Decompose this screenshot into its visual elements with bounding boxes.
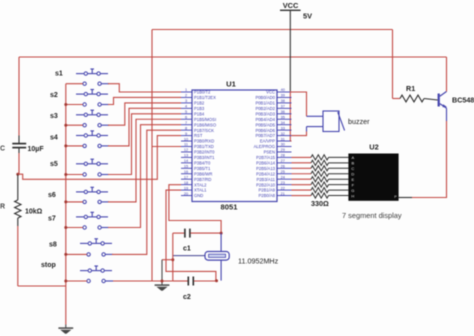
svg-text:s5: s5 xyxy=(50,161,58,168)
svg-text:P2B2/A10: P2B2/A10 xyxy=(256,182,276,187)
svg-text:P0B5/AD5: P0B5/AD5 xyxy=(255,122,275,127)
junction RC node xyxy=(16,173,19,176)
power VCC symbol xyxy=(280,1,301,141)
switch s6 xyxy=(48,187,109,203)
svg-text:s2: s2 xyxy=(50,92,58,99)
junction bus s2 xyxy=(64,103,67,106)
svg-text:P3B6/WR: P3B6/WR xyxy=(194,171,212,176)
pin 33 P0B6/AD6 xyxy=(255,126,291,132)
resistor 330 ohm row 8 xyxy=(292,193,349,198)
pin 6 P1B5/MOSI xyxy=(181,115,216,121)
svg-text:12: 12 xyxy=(184,148,188,152)
pin 24 P2B3/A11 xyxy=(256,175,291,181)
svg-text:11.0952MHz: 11.0952MHz xyxy=(238,257,279,266)
wire riser to pin 11 xyxy=(152,146,181,148)
wire pin40 to VCC stem xyxy=(290,91,291,93)
svg-text:P1B6/MISO: P1B6/MISO xyxy=(194,122,217,127)
wire s1 left lead xyxy=(66,83,83,85)
pin 1 P1B0/T2 xyxy=(181,88,211,94)
wire rail to R1 xyxy=(392,30,394,99)
wire s8 left lead xyxy=(66,253,87,255)
wire s5 to pin 5 xyxy=(108,114,181,175)
svg-text:29: 29 xyxy=(281,148,285,152)
wire VCC rail xyxy=(19,56,447,58)
svg-text:s6: s6 xyxy=(48,192,56,199)
wire s2 to pin 2 xyxy=(108,97,181,104)
pin 9 RST xyxy=(181,132,203,138)
wire s3 left lead xyxy=(66,124,83,126)
junction bus stop xyxy=(64,280,67,283)
svg-text:8051: 8051 xyxy=(221,203,239,212)
pin 10 P3B0/RXD xyxy=(181,137,214,143)
switch s3 xyxy=(50,110,109,127)
junction bus s5 xyxy=(64,173,67,176)
svg-text:U2: U2 xyxy=(369,143,378,152)
pin 29 PSEN xyxy=(264,148,292,154)
svg-text:RST: RST xyxy=(194,133,203,138)
switch s1 xyxy=(55,69,109,85)
pin 21 P2B0/A8 xyxy=(258,192,291,198)
wire bottom left xyxy=(18,285,66,287)
svg-text:B: B xyxy=(351,161,354,166)
resistor 330 ohm row 3 xyxy=(292,166,349,171)
svg-text:s3: s3 xyxy=(50,113,58,120)
wire left rail top xyxy=(18,57,20,136)
pin 13 P3B3/INT1 xyxy=(181,154,215,160)
switch stop xyxy=(41,262,113,283)
pin 8 P1B7/SCK xyxy=(181,126,214,132)
svg-text:P1B7/SCK: P1B7/SCK xyxy=(194,128,214,133)
svg-text:s4: s4 xyxy=(50,135,58,142)
svg-text:P0B7/AD7: P0B7/AD7 xyxy=(255,133,275,138)
svg-text:37: 37 xyxy=(281,105,285,109)
pin 19 XTAL1 xyxy=(181,186,207,192)
svg-text:19: 19 xyxy=(184,186,188,190)
pin 25 P2B4/A12 xyxy=(256,170,291,176)
wire collector xyxy=(446,57,448,91)
pin 17 P3B7/RD xyxy=(181,175,211,181)
svg-text:15: 15 xyxy=(184,165,188,169)
svg-text:3: 3 xyxy=(185,99,187,103)
switch s7 xyxy=(48,212,109,229)
junction bus s3 xyxy=(64,124,67,127)
junction bus s4 xyxy=(64,144,67,147)
svg-text:8: 8 xyxy=(185,126,187,130)
svg-text:VCC: VCC xyxy=(266,90,275,95)
svg-text:ALE/PROG: ALE/PROG xyxy=(254,144,275,149)
svg-text:40: 40 xyxy=(281,88,285,92)
svg-text:U1: U1 xyxy=(226,80,236,89)
svg-text:BC548: BC548 xyxy=(452,96,474,105)
wire ground link xyxy=(162,259,173,261)
pin 2 P1B1/T2EX xyxy=(181,94,216,100)
svg-text:35: 35 xyxy=(281,115,285,119)
svg-text:s1: s1 xyxy=(55,71,63,78)
svg-text:s8: s8 xyxy=(49,242,57,249)
svg-text:11: 11 xyxy=(184,143,188,147)
svg-text:13: 13 xyxy=(184,154,188,158)
capacitor c1 xyxy=(173,229,221,238)
svg-text:P3B4/T0: P3B4/T0 xyxy=(194,160,211,165)
svg-text:28: 28 xyxy=(281,154,285,158)
wire switch ground bus xyxy=(65,84,67,325)
pin 15 P3B5/T1 xyxy=(181,165,211,171)
svg-text:P2B4/A12: P2B4/A12 xyxy=(256,171,276,176)
svg-text:C: C xyxy=(0,146,5,153)
svg-text:21: 21 xyxy=(281,192,285,196)
ground main xyxy=(58,325,73,334)
wire rail riser to stop xyxy=(151,30,153,282)
wire s2 left lead xyxy=(66,104,83,106)
svg-text:20: 20 xyxy=(184,192,188,196)
svg-text:P0B0/AD0: P0B0/AD0 xyxy=(255,95,275,100)
svg-text:7 segment display: 7 segment display xyxy=(342,211,402,220)
svg-text:31: 31 xyxy=(281,137,285,141)
junction ground link xyxy=(171,258,174,261)
wire ground stem xyxy=(161,260,163,282)
svg-text:30: 30 xyxy=(281,143,285,147)
svg-text:P0B6/AD6: P0B6/AD6 xyxy=(255,128,275,133)
switch s4 xyxy=(50,131,109,148)
svg-text:GND: GND xyxy=(194,193,203,198)
wire XTAL1 elbow xyxy=(166,190,216,281)
svg-text:P0B4/AD4: P0B4/AD4 xyxy=(255,117,275,122)
svg-text:24: 24 xyxy=(281,175,285,179)
wire XTAL2 elbow xyxy=(169,185,221,233)
svg-text:VCC: VCC xyxy=(283,1,299,10)
pin 35 P0B4/AD4 xyxy=(255,115,291,121)
svg-text:5V: 5V xyxy=(303,12,312,21)
pin 38 P0B1/AD1 xyxy=(255,99,291,105)
resistor 330 ohm row 4 xyxy=(292,171,349,176)
svg-text:10µF: 10µF xyxy=(28,146,45,153)
wire crystal bottom xyxy=(220,260,222,281)
svg-text:c1: c1 xyxy=(183,246,191,253)
wire s6 to pin 6 xyxy=(108,119,181,202)
svg-text:P1B4: P1B4 xyxy=(194,111,205,116)
pin 30 ALE/PROG xyxy=(254,143,292,149)
pin 23 P2B2/A10 xyxy=(256,181,291,187)
svg-text:P2B3/A11: P2B3/A11 xyxy=(256,177,275,182)
ground crystal xyxy=(155,282,170,291)
svg-text:9: 9 xyxy=(185,132,187,136)
svg-text:R1: R1 xyxy=(406,84,415,93)
svg-text:2: 2 xyxy=(185,94,187,98)
pin 40 VCC xyxy=(266,88,291,94)
pin 34 P0B5/AD5 xyxy=(255,121,291,127)
svg-text:18: 18 xyxy=(184,181,188,185)
svg-text:G: G xyxy=(351,188,354,193)
svg-text:P3B0/RXD: P3B0/RXD xyxy=(194,139,214,144)
svg-text:stop: stop xyxy=(41,262,56,269)
svg-text:17: 17 xyxy=(184,175,188,179)
junction bus s6 xyxy=(64,200,67,203)
svg-text:1: 1 xyxy=(185,88,187,92)
svg-text:A: A xyxy=(351,155,354,160)
svg-text:P2B7/A15: P2B7/A15 xyxy=(256,155,276,160)
junction ground stem xyxy=(161,280,164,283)
svg-text:H: H xyxy=(351,193,354,198)
pin 4 P1B3 xyxy=(181,105,205,111)
resistor 330 ohm row 2 xyxy=(292,160,349,165)
switch s8 xyxy=(49,239,113,256)
wire resistor to bottom xyxy=(17,226,19,286)
svg-text:P: P xyxy=(394,195,397,199)
pin 11 P3B1/TXD xyxy=(181,143,214,149)
svg-text:D: D xyxy=(351,171,354,176)
wire emitter to display xyxy=(446,108,448,121)
svg-text:P3B7/RD: P3B7/RD xyxy=(194,177,211,182)
wire stop row to c2 xyxy=(152,280,173,282)
svg-text:33: 33 xyxy=(281,126,285,130)
wire c1 to ground drop xyxy=(172,233,174,281)
svg-text:34: 34 xyxy=(281,121,285,125)
wire s1 to pin 1 xyxy=(108,84,181,92)
wire VCC to buzzer top xyxy=(290,92,306,116)
svg-text:XTAL2: XTAL2 xyxy=(194,182,207,187)
pin 36 P0B3/AD3 xyxy=(255,110,291,116)
svg-text:P2B1/A9: P2B1/A9 xyxy=(258,188,275,193)
wire pin32 to buzzer bottom xyxy=(292,132,307,136)
svg-text:6: 6 xyxy=(185,115,187,119)
wire s4 left lead xyxy=(66,145,83,147)
resistor 330 ohm row 5 xyxy=(292,177,349,182)
wire s7 left lead xyxy=(66,227,83,229)
svg-text:10kΩ: 10kΩ xyxy=(25,209,43,216)
capacitor c2 xyxy=(173,277,218,286)
display U2 7-segment xyxy=(348,154,398,201)
wire EA to VCC stem xyxy=(290,140,291,142)
wire stop left lead xyxy=(66,280,87,282)
svg-text:27: 27 xyxy=(281,159,285,163)
svg-text:P0B1/AD1: P0B1/AD1 xyxy=(255,101,275,106)
svg-text:P0B2/AD2: P0B2/AD2 xyxy=(255,106,275,111)
svg-text:P1B0/T2: P1B0/T2 xyxy=(194,90,211,95)
svg-text:P1B5/MOSI: P1B5/MOSI xyxy=(194,117,216,122)
pin 32 P0B7/AD7 xyxy=(255,132,291,138)
svg-text:P2B5/A13: P2B5/A13 xyxy=(256,166,276,171)
svg-text:s7: s7 xyxy=(48,216,56,223)
wire cap to node xyxy=(18,153,20,174)
svg-text:EA/VPP: EA/VPP xyxy=(260,139,275,144)
wire top rail to R1 xyxy=(152,29,393,31)
wire stop to riser xyxy=(113,280,152,282)
pin 28 P2B7/A15 xyxy=(256,154,291,160)
svg-text:22: 22 xyxy=(281,186,285,190)
svg-text:buzzer: buzzer xyxy=(348,117,370,126)
svg-text:26: 26 xyxy=(281,165,285,169)
wire s8 to pin 8 xyxy=(112,130,181,254)
junction bus s7 xyxy=(64,226,67,229)
resistor 330 ohm row 6 xyxy=(292,182,349,187)
switch s5 xyxy=(50,159,109,176)
svg-text:330Ω: 330Ω xyxy=(311,199,329,208)
capacitor C 10uF xyxy=(0,136,44,154)
buzzer LS1 xyxy=(307,111,345,132)
wire s7 to pin 7 xyxy=(108,125,181,228)
svg-text:P1B1/T2EX: P1B1/T2EX xyxy=(194,95,216,100)
junction c1 right xyxy=(220,232,223,235)
pin 14 P3B4/T0 xyxy=(181,159,211,165)
wire display pin lead xyxy=(399,197,412,199)
pin 20 GND xyxy=(181,192,203,198)
svg-text:5: 5 xyxy=(185,110,187,114)
wire s6 left lead xyxy=(66,201,83,203)
pin 16 P3B6/WR xyxy=(181,170,212,176)
svg-text:P3B2/INT0: P3B2/INT0 xyxy=(194,150,215,155)
svg-text:c2: c2 xyxy=(183,294,191,301)
resistor 330 ohm row 7 xyxy=(292,188,349,193)
svg-text:P3B5/T1: P3B5/T1 xyxy=(194,166,211,171)
pin 5 P1B4 xyxy=(181,110,205,116)
wire s5 left lead xyxy=(66,174,83,176)
svg-text:23: 23 xyxy=(281,181,285,185)
svg-text:38: 38 xyxy=(281,99,285,103)
resistor 330 ohm row 1 xyxy=(292,155,349,160)
svg-text:4: 4 xyxy=(185,105,187,109)
wire s3 to pin 3 xyxy=(108,103,181,125)
svg-text:C: C xyxy=(351,166,354,171)
svg-text:14: 14 xyxy=(184,159,188,163)
pin 26 P2B5/A13 xyxy=(256,165,291,171)
pin 12 P3B2/INT0 xyxy=(181,148,215,154)
svg-text:7: 7 xyxy=(185,121,187,125)
wire RC node to RST xyxy=(18,136,181,180)
svg-text:10: 10 xyxy=(184,137,188,141)
pin 18 XTAL2 xyxy=(181,181,207,187)
svg-text:E: E xyxy=(351,177,354,182)
svg-text:P1B3: P1B3 xyxy=(194,106,205,111)
svg-text:16: 16 xyxy=(184,170,188,174)
junction bus s8 xyxy=(64,253,67,256)
pin 31 EA/VPP xyxy=(260,137,292,143)
pin 22 P2B1/A9 xyxy=(258,186,291,192)
svg-text:P3B3/INT1: P3B3/INT1 xyxy=(194,155,215,160)
svg-text:PSEN: PSEN xyxy=(264,150,275,155)
switch s2 xyxy=(50,90,109,107)
junction c2 right xyxy=(215,279,218,282)
svg-text:36: 36 xyxy=(281,110,285,114)
svg-text:P2B6/A14: P2B6/A14 xyxy=(256,160,276,165)
pin 7 P1B6/MISO xyxy=(181,121,217,127)
pin 27 P2B6/A14 xyxy=(256,159,291,165)
crystal X1 xyxy=(173,252,229,261)
transistor Q1 BC548 xyxy=(438,91,447,108)
op chip U1 8051 body xyxy=(192,90,277,202)
resistor R1 xyxy=(393,95,438,102)
pin 3 P1B2 xyxy=(181,99,205,105)
resistor R 10k xyxy=(0,174,43,226)
wire crystal top xyxy=(220,233,222,251)
svg-text:P0B3/AD3: P0B3/AD3 xyxy=(255,111,275,116)
svg-text:P2B0/A8: P2B0/A8 xyxy=(258,193,275,198)
svg-text:25: 25 xyxy=(281,170,285,174)
svg-text:R: R xyxy=(0,204,5,211)
pin 37 P0B2/AD2 xyxy=(255,105,291,111)
svg-text:P1B2: P1B2 xyxy=(194,101,205,106)
svg-text:32: 32 xyxy=(281,132,285,136)
svg-text:XTAL1: XTAL1 xyxy=(194,188,207,193)
svg-text:39: 39 xyxy=(281,94,285,98)
wire s4 to pin 4 xyxy=(108,108,181,146)
svg-text:P3B1/TXD: P3B1/TXD xyxy=(194,144,214,149)
pin 39 P0B0/AD0 xyxy=(255,94,291,100)
